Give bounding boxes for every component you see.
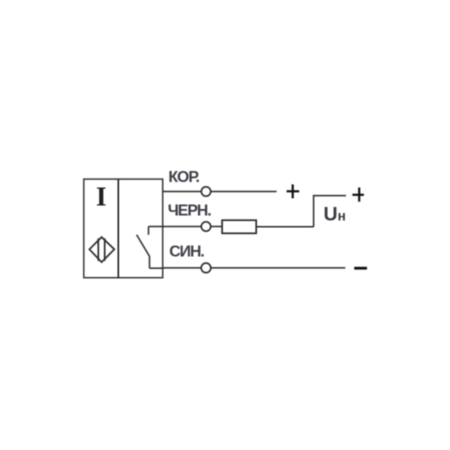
wire blue right segment bbox=[211, 267, 345, 269]
sensor body U1 outline bbox=[84, 179, 163, 278]
terminal circle black bbox=[201, 222, 210, 231]
plus sign supply terminal bbox=[352, 188, 364, 202]
supply riser vertical wire bbox=[313, 195, 315, 227]
proximity sensor symbol (rhombus) bbox=[89, 237, 114, 262]
switch feed wire inside body (to black output) bbox=[149, 226, 163, 228]
svg-text:I: I bbox=[96, 181, 107, 211]
svg-text:СИН.: СИН. bbox=[169, 243, 204, 260]
switch contact tick bbox=[148, 227, 150, 235]
terminal circle blue bbox=[201, 263, 211, 273]
proximity sensor symbol inner line left bbox=[97, 238, 99, 260]
svg-text:ЧЕРН.: ЧЕРН. bbox=[168, 203, 212, 220]
terminal circle brown bbox=[201, 187, 210, 196]
switch lower lead horizontal bbox=[150, 267, 163, 269]
wire brown left segment bbox=[163, 191, 202, 193]
wire blue left segment bbox=[163, 267, 201, 269]
minus sign supply terminal bbox=[354, 267, 367, 270]
wire black left segment bbox=[163, 226, 202, 228]
svg-text:КОР.: КОР. bbox=[168, 169, 199, 186]
proximity sensor symbol inner line right bbox=[104, 238, 106, 260]
sensor body divider bbox=[117, 179, 119, 278]
switch blade (open) bbox=[137, 235, 150, 256]
wire brown right segment bbox=[211, 191, 277, 193]
supply top horizontal wire bbox=[314, 195, 346, 197]
switch lower lead vertical bbox=[149, 256, 151, 268]
load resistor R (нагрузка) bbox=[222, 220, 256, 233]
svg-text:Uн: Uн bbox=[324, 204, 346, 226]
wire black to load bbox=[211, 226, 222, 228]
plus sign at brown wire bbox=[287, 184, 300, 198]
wire from load to supply corner bbox=[256, 226, 313, 228]
